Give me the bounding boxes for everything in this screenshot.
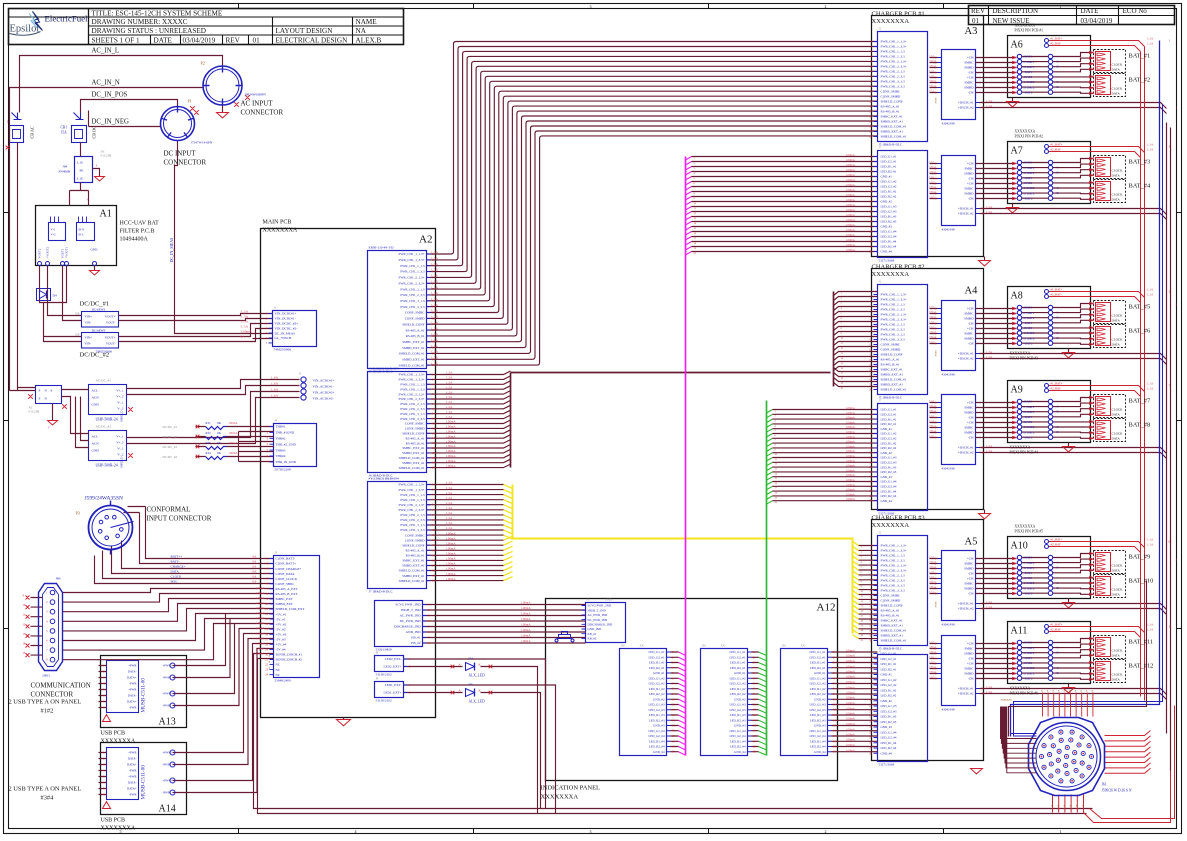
svg-text:VIN-: VIN- xyxy=(85,321,92,325)
svg-text:+: + xyxy=(1057,420,1059,424)
svg-text:-: - xyxy=(1057,591,1058,595)
svg-text:LED_G1_#2: LED_G1_#2 xyxy=(881,678,897,682)
svg-text:SMBC_EXT_#1: SMBC_EXT_#1 xyxy=(881,368,904,372)
svg-text:100mA: 100mA xyxy=(929,191,936,194)
svg-text:LED_G2_#3: LED_G2_#3 xyxy=(730,708,746,712)
svg-text:x: x xyxy=(1076,804,1078,808)
svg-text:GND_#3: GND_#3 xyxy=(653,724,665,728)
svg-text:GND_#1: GND_#1 xyxy=(881,673,893,677)
svg-text:VIN_ACDC#2-: VIN_ACDC#2- xyxy=(313,397,334,401)
svg-text:2..6A: 2..6A xyxy=(929,55,935,58)
svg-text:100mA: 100mA xyxy=(929,671,936,674)
svg-text:43041938: 43041938 xyxy=(942,708,956,712)
svg-text:1..5A: 1..5A xyxy=(446,390,454,394)
svg-text:NC: NC xyxy=(276,668,281,672)
svg-text:100mA: 100mA xyxy=(229,431,239,435)
svg-text:C: C xyxy=(1057,186,1059,190)
svg-text:CLOCK: CLOCK xyxy=(1112,338,1124,342)
svg-text:1..6A: 1..6A xyxy=(271,376,279,380)
svg-text:1..1A: 1..1A xyxy=(1147,628,1155,632)
svg-text:A6: A6 xyxy=(1011,40,1023,51)
svg-text:DC INPUT: DC INPUT xyxy=(164,150,197,158)
svg-text:LED_R2_#1: LED_R2_#1 xyxy=(810,666,826,670)
svg-text:1.00mA: 1.00mA xyxy=(846,654,856,658)
svg-text:LED_R1_#1: LED_R1_#1 xyxy=(881,417,897,421)
svg-text:LED_G2_#3: LED_G2_#3 xyxy=(881,210,897,214)
svg-text:SHIELD_CONF: SHIELD_CONF xyxy=(881,604,903,608)
svg-text:P2: P2 xyxy=(201,61,205,66)
svg-text:LED_R1_#3: LED_R1_#3 xyxy=(730,713,746,717)
svg-text:1..5A: 1..5A xyxy=(986,355,994,359)
svg-text:LED_G1_#2: LED_G1_#2 xyxy=(730,677,746,681)
svg-text:#2_BAT-: #2_BAT- xyxy=(1051,42,1062,46)
svg-text:GND_#1: GND_#1 xyxy=(814,671,826,675)
svg-text:1..5A: 1..5A xyxy=(446,395,454,399)
svg-text:53271/2069: 53271/2069 xyxy=(879,763,895,767)
svg-text:2..6A: 2..6A xyxy=(929,420,935,423)
svg-text:SMBD_EXT_#1: SMBD_EXT_#1 xyxy=(402,574,425,578)
svg-text:J599/26 W D 26 S N: J599/26 W D 26 S N xyxy=(1102,789,1132,793)
svg-text:1.00mA: 1.00mA xyxy=(846,238,856,242)
svg-text:DATA: DATA xyxy=(1112,678,1121,682)
svg-text:1.00mA: 1.00mA xyxy=(846,213,856,217)
svg-text:C: C xyxy=(1057,561,1059,565)
svg-text:-CH: -CH xyxy=(968,197,974,201)
svg-text:1.00mA: 1.00mA xyxy=(446,420,457,424)
svg-text:1.00mA: 1.00mA xyxy=(446,567,457,571)
svg-text:SMBC_EXT: SMBC_EXT xyxy=(276,597,293,601)
svg-text:10k: 10k xyxy=(217,421,222,425)
svg-text:V+_2: V+_2 xyxy=(116,395,124,399)
svg-text:1.00mA: 1.00mA xyxy=(846,464,856,468)
svg-text:2: 2 xyxy=(825,829,827,834)
svg-text:XXXXXXXA: XXXXXXXA xyxy=(263,228,298,234)
svg-text:-5V_#1: -5V_#1 xyxy=(276,617,286,621)
svg-text:THR#1: THR#1 xyxy=(276,425,286,429)
svg-text:-CH: -CH xyxy=(968,572,974,576)
svg-text:1.70mA: 1.70mA xyxy=(256,612,265,615)
svg-text:GND_#4: GND_#4 xyxy=(881,752,893,756)
svg-text:1.00mA: 1.00mA xyxy=(846,478,856,482)
svg-text:+5V_#2: +5V_#2 xyxy=(276,622,287,626)
svg-text:10494400A: 10494400A xyxy=(120,237,149,243)
svg-text:-: - xyxy=(1057,435,1058,439)
svg-text:-BAT2: -BAT2 xyxy=(1024,196,1033,200)
svg-text:100mA: 100mA xyxy=(929,316,936,319)
svg-text:GND_#4: GND_#4 xyxy=(881,499,893,503)
svg-text:V+2: V+2 xyxy=(51,234,57,237)
svg-text:-PWR!: -PWR! xyxy=(163,676,172,680)
svg-text:LED_G1_#1: LED_G1_#1 xyxy=(649,650,665,654)
svg-text:LED_R1_#4: LED_R1_#4 xyxy=(881,741,897,745)
svg-text:1.00mA: 1.00mA xyxy=(846,459,856,463)
svg-text:C: C xyxy=(1057,425,1059,429)
svg-text:V-_1: V-_1 xyxy=(117,447,124,451)
svg-text:THR_#2_GND: THR_#2_GND xyxy=(276,442,297,446)
svg-text:+CH: +CH xyxy=(967,76,974,80)
svg-text:3: 3 xyxy=(590,829,592,834)
svg-text:LED_G1_#3: LED_G1_#3 xyxy=(730,703,746,707)
svg-text:-CH: -CH xyxy=(968,657,974,661)
svg-text:LED_R2_#3: LED_R2_#3 xyxy=(730,719,746,723)
svg-text:1.00mA: 1.00mA xyxy=(446,572,457,576)
svg-text:+CH: +CH xyxy=(967,421,974,425)
svg-text:BAT_#7: BAT_#7 xyxy=(1129,398,1151,405)
svg-text:1.00mA: 1.00mA xyxy=(846,706,856,710)
svg-text:J7 1B&D-B-DLC: J7 1B&D-B-DLC xyxy=(369,590,394,594)
svg-text:SHEETS 1 OF 1: SHEETS 1 OF 1 xyxy=(92,37,141,45)
svg-text:LED_R1_#1: LED_R1_#1 xyxy=(881,662,897,666)
svg-text:2..6A: 2..6A xyxy=(929,641,935,644)
svg-text:1.00mA: 1.00mA xyxy=(846,717,856,721)
svg-text:x: x xyxy=(1063,804,1065,808)
svg-text:CONF_SMBD: CONF_SMBD xyxy=(881,95,901,99)
svg-text:-: - xyxy=(1057,70,1058,74)
svg-text:+DSCH_#1: +DSCH_#1 xyxy=(958,446,974,450)
svg-text:LED_G2_#3: LED_G2_#3 xyxy=(649,708,665,712)
svg-text:LED_G1_#1: LED_G1_#1 xyxy=(881,155,897,159)
svg-text:XXXXXXXA: XXXXXXXA xyxy=(1015,24,1036,28)
svg-text:1..5A: 1..5A xyxy=(986,444,994,448)
svg-text:2..6A: 2..6A xyxy=(929,556,935,559)
svg-text:VOUT-: VOUT- xyxy=(106,321,116,325)
svg-text:LED_R1_#3: LED_R1_#3 xyxy=(881,215,897,219)
svg-text:CONF_SMBC: CONF_SMBC xyxy=(405,533,425,537)
svg-text:2 USB TYPE A ON PANEL: 2 USB TYPE A ON PANEL xyxy=(9,699,82,706)
svg-text:GND_#4: GND_#4 xyxy=(814,750,826,754)
svg-text:BAT_#6: BAT_#6 xyxy=(1129,328,1151,335)
svg-text:P1: P1 xyxy=(188,99,192,104)
svg-text:-CH: -CH xyxy=(968,71,974,75)
svg-text:1..5A: 1..5A xyxy=(431,356,439,360)
svg-text:A5: A5 xyxy=(965,537,978,548)
svg-text:CONF_BATT-: CONF_BATT- xyxy=(276,557,295,561)
svg-text:GND_#2: GND_#2 xyxy=(734,698,746,702)
svg-text:GND_#4: GND_#4 xyxy=(734,750,746,754)
svg-text:LED_R2_#4: LED_R2_#4 xyxy=(649,745,665,749)
svg-text:43041938: 43041938 xyxy=(942,467,956,471)
svg-text:CLOCK: CLOCK xyxy=(1112,314,1124,318)
svg-text:A8: A8 xyxy=(1011,291,1023,302)
svg-text:ACL: ACL xyxy=(92,389,99,393)
svg-text:1.70mA: 1.70mA xyxy=(256,607,265,610)
svg-text:THR_IN_GND: THR_IN_GND xyxy=(276,460,297,464)
svg-text:BAT_#11: BAT_#11 xyxy=(1129,639,1154,646)
svg-text:PIXXI PIN PCB #2: PIXXI PIN PCB #2 xyxy=(1015,135,1044,139)
svg-text:C BAT2: C BAT2 xyxy=(1024,186,1035,190)
svg-text:LED_G1_#1: LED_G1_#1 xyxy=(730,650,746,654)
svg-text:A1: A1 xyxy=(100,209,112,220)
svg-text:SHIELD_CONF: SHIELD_CONF xyxy=(402,543,424,547)
svg-text:1.00mA: 1.00mA xyxy=(846,675,856,679)
svg-text:LED_G1_#4: LED_G1_#4 xyxy=(730,729,746,733)
svg-text:+CH: +CH xyxy=(967,557,974,561)
svg-text:1..1A: 1..1A xyxy=(1147,538,1155,542)
svg-text:J2B: J2B xyxy=(75,333,80,337)
svg-text:SMBD_EXT_#1: SMBD_EXT_#1 xyxy=(402,564,425,568)
svg-text:USB PCB: USB PCB xyxy=(101,818,126,824)
svg-text:C: C xyxy=(1057,666,1059,670)
svg-text:AC_IN_L: AC_IN_L xyxy=(92,48,120,55)
svg-text:SMBD_EXT_#1: SMBD_EXT_#1 xyxy=(881,373,904,377)
svg-text:GND_#4: GND_#4 xyxy=(881,250,893,254)
svg-text:1.00mA: 1.00mA xyxy=(846,738,856,742)
svg-text:x: x xyxy=(1052,689,1054,693)
svg-text:LED_G2_#3: LED_G2_#3 xyxy=(810,708,826,712)
svg-text:RS-485_B_#1: RS-485_B_#1 xyxy=(881,110,900,114)
svg-text:DATE: DATE xyxy=(154,37,173,45)
svg-text:43041938: 43041938 xyxy=(942,373,956,377)
svg-text:100mA: 100mA xyxy=(929,566,936,569)
svg-text:1.70mA: 1.70mA xyxy=(256,627,265,630)
svg-text:+CH: +CH xyxy=(967,327,974,331)
svg-text:DATA+: DATA+ xyxy=(127,763,137,767)
svg-text:PIXXI PIN PCB #5: PIXXI PIN PCB #5 xyxy=(1015,530,1044,534)
svg-text:VOUT+: VOUT+ xyxy=(105,336,116,340)
svg-text:CLOCK: CLOCK xyxy=(1112,87,1124,91)
svg-text:2..6A: 2..6A xyxy=(929,176,935,179)
svg-text:xxxxxxx: xxxxxxx xyxy=(1001,698,1013,702)
svg-text:CHARGE+: CHARGE+ xyxy=(171,565,186,569)
svg-text:SMBD: SMBD xyxy=(964,172,974,176)
svg-text:1.00mA: 1.00mA xyxy=(846,233,856,237)
svg-text:43041938: 43041938 xyxy=(942,122,956,126)
svg-text:1.00mA: 1.00mA xyxy=(446,464,457,468)
svg-text:GND_#2: GND_#2 xyxy=(814,698,826,702)
svg-text:DATE: DATE xyxy=(1081,7,1099,15)
svg-text:1.00mA: 1.00mA xyxy=(846,691,856,695)
svg-text:P.B_#2: P.B_#2 xyxy=(411,641,421,645)
svg-text:DC_IN_MEAS: DC_IN_MEAS xyxy=(275,331,296,335)
svg-text:1.00mA: 1.00mA xyxy=(846,411,856,415)
svg-text:LED_G2_#4: LED_G2_#4 xyxy=(881,736,897,740)
svg-text:C BAT1: C BAT1 xyxy=(1024,405,1035,409)
svg-text:01: 01 xyxy=(253,37,261,45)
svg-text:-BAT1: -BAT1 xyxy=(1024,176,1033,180)
svg-text:+DSCH_#2: +DSCH_#2 xyxy=(958,212,974,216)
svg-text:#1_BAT+: #1_BAT+ xyxy=(1051,288,1063,292)
svg-text:1.00mA: 1.00mA xyxy=(846,208,856,212)
svg-text:SMBC_EXT_#1: SMBC_EXT_#1 xyxy=(881,115,904,119)
svg-text:V-_2: V-_2 xyxy=(117,407,124,411)
svg-text:C: C xyxy=(1057,311,1059,315)
svg-text:RT3: RT3 xyxy=(206,441,212,445)
svg-text:ELECTRICAL DESIGN: ELECTRICAL DESIGN xyxy=(276,37,349,45)
svg-text:-5V_#3: -5V_#3 xyxy=(276,638,286,642)
svg-text:LED_G2_#3: LED_G2_#3 xyxy=(881,710,897,714)
svg-text:LED_R2_#2: LED_R2_#2 xyxy=(881,446,897,450)
svg-text:VIN_ACDC#1-: VIN_ACDC#1- xyxy=(313,385,334,389)
svg-text:CONF_SMBD: CONF_SMBD xyxy=(405,317,425,321)
svg-text:P3: P3 xyxy=(76,511,80,516)
svg-text:1..5A: 1..5A xyxy=(431,320,439,324)
svg-text:1.70mA: 1.70mA xyxy=(256,632,265,635)
svg-text:SHIELD_COM_#1: SHIELD_COM_#1 xyxy=(399,569,425,573)
svg-text:RT2: RT2 xyxy=(206,431,212,435)
svg-text:1..5A: 1..5A xyxy=(431,350,439,354)
svg-text:1.00mA: 1.00mA xyxy=(846,473,856,477)
svg-text:5..5A: 5..5A xyxy=(241,310,249,314)
svg-text:SHIELD: SHIELD xyxy=(120,456,124,468)
svg-text:GND_#3: GND_#3 xyxy=(814,724,826,728)
svg-text:GND_#1: GND_#1 xyxy=(734,671,746,675)
svg-text:1.70mA: 1.70mA xyxy=(256,587,265,590)
svg-text:RS-485_A_#1: RS-485_A_#1 xyxy=(881,105,900,109)
svg-text:1.00mA: 1.00mA xyxy=(446,562,457,566)
svg-text:-BAT2: -BAT2 xyxy=(1024,435,1033,439)
svg-text:1..5A: 1..5A xyxy=(986,104,994,108)
svg-text:A7: A7 xyxy=(1011,146,1023,157)
svg-text:SMBC: SMBC xyxy=(964,426,974,430)
svg-text:BAT_#12: BAT_#12 xyxy=(1129,663,1154,670)
svg-text:LED_G1_#2: LED_G1_#2 xyxy=(649,677,665,681)
svg-text:1..5A: 1..5A xyxy=(446,516,454,520)
svg-text:CLOCK: CLOCK xyxy=(1112,63,1124,67)
svg-text:1.00mA: 1.00mA xyxy=(521,639,532,643)
svg-text:1..5A: 1..5A xyxy=(431,361,439,365)
svg-text:V-_1: V-_1 xyxy=(117,401,124,405)
svg-text:CONF_SMBC: CONF_SMBC xyxy=(881,90,901,94)
svg-text:1..5A: 1..5A xyxy=(446,506,454,510)
svg-text:SHIELD_COM_EXT: SHIELD_COM_EXT xyxy=(276,607,305,611)
svg-text:2..6A: 2..6A xyxy=(929,75,935,78)
svg-text:1..5A: 1..5A xyxy=(446,376,454,380)
svg-text:0A: 0A xyxy=(253,570,258,574)
svg-text:53271/2069: 53271/2069 xyxy=(879,259,895,263)
svg-text:+: + xyxy=(1057,576,1059,580)
svg-text:+: + xyxy=(1057,661,1059,665)
svg-text:LED_R2_#4: LED_R2_#4 xyxy=(881,746,897,750)
svg-text:1.00mA: 1.00mA xyxy=(846,416,856,420)
svg-text:CONF_SMBD: CONF_SMBD xyxy=(881,599,901,603)
svg-text:+CH: +CH xyxy=(967,642,974,646)
svg-text:#2_BAT-: #2_BAT- xyxy=(1051,293,1062,297)
svg-text:LED_R2_#2: LED_R2_#2 xyxy=(730,692,746,696)
svg-text:SHIELD_COM_#1: SHIELD_COM_#1 xyxy=(881,639,907,643)
svg-text:#2_BAT-: #2_BAT- xyxy=(1051,387,1062,391)
svg-text:V+_1: V+_1 xyxy=(116,435,124,439)
svg-text:CLOCK: CLOCK xyxy=(1112,193,1124,197)
svg-text:1.00mA: 1.00mA xyxy=(846,158,856,162)
svg-text:x: x xyxy=(1057,804,1059,808)
svg-text:LED_G1_#2: LED_G1_#2 xyxy=(881,432,897,436)
svg-text:SMBD: SMBD xyxy=(964,66,974,70)
svg-text:CLOCK: CLOCK xyxy=(1112,432,1124,436)
svg-text:1.00mA: 1.00mA xyxy=(521,623,532,627)
svg-text:1..5A: 1..5A xyxy=(986,210,994,214)
svg-text:IN L: IN L xyxy=(79,234,85,237)
svg-text:PIXXI PIN PCB #3: PIXXI PIN PCB #3 xyxy=(1010,357,1039,361)
svg-text:J4B: J4B xyxy=(56,577,61,581)
svg-text:RT4: RT4 xyxy=(206,451,212,455)
svg-text:1.00mA: 1.00mA xyxy=(241,330,253,334)
svg-text:GND_#1: GND_#1 xyxy=(881,427,893,431)
svg-text:1.00mA: 1.00mA xyxy=(846,733,856,737)
svg-text:+PWR: +PWR xyxy=(128,775,136,779)
svg-text:GND_#2: GND_#2 xyxy=(881,451,893,455)
svg-text:DATA: DATA xyxy=(1112,319,1121,323)
svg-text:C BAT2: C BAT2 xyxy=(1024,425,1035,429)
svg-text:1.00mA: 1.00mA xyxy=(846,435,856,439)
svg-text:x: x xyxy=(269,660,271,664)
svg-text:+PWR!: +PWR! xyxy=(163,779,172,783)
svg-text:01: 01 xyxy=(972,17,980,25)
svg-text:-PWR: -PWR xyxy=(129,706,137,710)
svg-text:x: x xyxy=(1091,689,1093,693)
svg-text:RS-485_B_EXT: RS-485_B_EXT xyxy=(276,592,298,596)
svg-text:1..5A: 1..5A xyxy=(986,350,994,354)
svg-text:ECO No: ECO No xyxy=(1123,7,1148,15)
svg-text:2: 2 xyxy=(825,4,827,9)
svg-text:4: 4 xyxy=(355,829,357,834)
svg-text:LAYOUT DESIGN: LAYOUT DESIGN xyxy=(276,27,334,35)
svg-text:RS-485_A_#1: RS-485_A_#1 xyxy=(405,328,424,332)
svg-text:ERNI-110-49-T-D: ERNI-110-49-T-D xyxy=(369,246,395,250)
svg-text:LED_R2_#2: LED_R2_#2 xyxy=(881,195,897,199)
svg-text:LED_R1_#2: LED_R1_#2 xyxy=(881,190,897,194)
svg-text:BAT_#9: BAT_#9 xyxy=(1129,554,1151,561)
svg-text:1.00mA: 1.00mA xyxy=(846,173,856,177)
svg-text:1..5A: 1..5A xyxy=(431,326,439,330)
svg-text:C: C xyxy=(1057,331,1059,335)
svg-text:THR_#1GND: THR_#1GND xyxy=(276,431,295,435)
svg-text:1.70mA: 1.70mA xyxy=(256,602,265,605)
svg-text:FILTER P.C.B: FILTER P.C.B xyxy=(120,229,155,235)
svg-text:43041938: 43041938 xyxy=(942,228,956,232)
svg-text:SHIELD_CONF: SHIELD_CONF xyxy=(881,100,903,104)
svg-text:1..5A: 1..5A xyxy=(446,410,454,414)
svg-text:-CH: -CH xyxy=(968,91,974,95)
svg-text:SMBC: SMBC xyxy=(964,332,974,336)
svg-text:VIN-: VIN- xyxy=(85,342,92,346)
svg-text:100mA: 100mA xyxy=(929,311,936,314)
svg-text:LED_R1_#2: LED_R1_#2 xyxy=(881,689,897,693)
svg-text:#1_BAT+: #1_BAT+ xyxy=(1051,37,1063,41)
svg-text:CONF_SMBD: CONF_SMBD xyxy=(405,538,425,542)
svg-text:xxxx: xxxx xyxy=(934,601,938,608)
svg-text:LED_R1_#2: LED_R1_#2 xyxy=(810,687,826,691)
svg-text:1.00mA: 1.00mA xyxy=(521,634,532,638)
svg-text:1.00mA: 1.00mA xyxy=(846,420,856,424)
svg-text:RS-485_A_#1: RS-485_A_#1 xyxy=(405,436,424,440)
svg-text:1.70mA: 1.70mA xyxy=(256,653,265,656)
svg-text:GND_#3: GND_#3 xyxy=(881,725,893,729)
svg-text:+CH: +CH xyxy=(967,182,974,186)
svg-text:SENSE_DISCH_#2: SENSE_DISCH_#2 xyxy=(276,658,303,662)
svg-text:+CH: +CH xyxy=(967,577,974,581)
svg-text:#2_BAT-: #2_BAT- xyxy=(1051,543,1062,547)
svg-text:AC/DC_#2: AC/DC_#2 xyxy=(96,425,112,429)
svg-text:SMBD: SMBD xyxy=(964,652,974,656)
svg-text:1.00mA: 1.00mA xyxy=(846,193,856,197)
svg-text:1..5A: 1..5A xyxy=(986,685,994,689)
svg-text:x: x xyxy=(269,666,271,670)
svg-text:1..5A: 1..5A xyxy=(446,511,454,515)
svg-text:-: - xyxy=(1057,676,1058,680)
svg-text:1.00mA: 1.00mA xyxy=(846,153,856,157)
svg-text:REV: REV xyxy=(226,37,241,45)
svg-text:1..5A: 1..5A xyxy=(431,268,439,272)
svg-text:D BAT1: D BAT1 xyxy=(1024,566,1035,570)
svg-text:LED_G1_#4: LED_G1_#4 xyxy=(881,230,897,234)
svg-text:GND_#2: GND_#2 xyxy=(653,698,665,702)
svg-text:LED_R2_#4: LED_R2_#4 xyxy=(730,745,746,749)
svg-text:CONF_SMBD: CONF_SMBD xyxy=(405,427,425,431)
svg-text:VIN_DCDC_#2+: VIN_DCDC_#2+ xyxy=(275,322,299,326)
svg-text:1..5A: 1..5A xyxy=(446,501,454,505)
svg-text:1.00mA: 1.00mA xyxy=(521,617,532,621)
svg-text:1..5A: 1..5A xyxy=(431,250,439,254)
